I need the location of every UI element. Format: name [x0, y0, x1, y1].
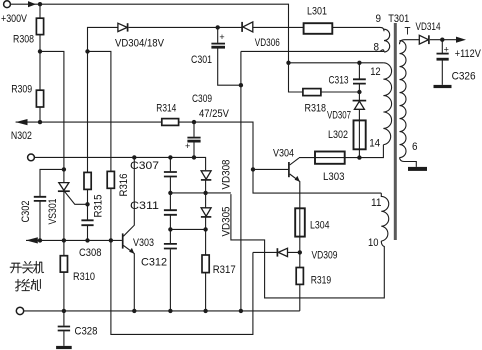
arrow N302 [16, 119, 28, 125]
wire VD309 to U-link [111, 240, 253, 334]
svg-text:R317: R317 [213, 264, 236, 276]
svg-text:VD304/18V: VD304/18V [115, 37, 165, 49]
svg-text:C313: C313 [329, 75, 349, 87]
svg-text:V303: V303 [133, 237, 154, 249]
resistor R316 [107, 171, 114, 188]
wire pin12 row [289, 62, 384, 64]
svg-text:C308: C308 [79, 247, 102, 259]
wire R316 link [88, 51, 111, 240]
node C301 bottom [239, 83, 243, 87]
svg-text:L303: L303 [323, 171, 345, 183]
diode VD314 [419, 35, 428, 44]
diode VD305 [205, 193, 207, 208]
wire row2 [170, 192, 231, 194]
wire R309 column [39, 51, 41, 122]
wire bottom rail [24, 310, 300, 312]
svg-text:VS301: VS301 [47, 199, 59, 225]
capacitor C301 [218, 27, 241, 85]
svg-text:T301: T301 [388, 13, 409, 25]
wire base column to pin11 [253, 169, 381, 193]
svg-text:V304: V304 [273, 148, 294, 160]
resistor R309 [36, 90, 43, 107]
svg-text:6: 6 [412, 141, 418, 153]
wire C302 link [40, 169, 64, 196]
node VD307 top [357, 90, 361, 94]
ground pin6 [408, 167, 427, 171]
svg-text:R310: R310 [73, 271, 95, 283]
svg-text:VD306: VD306 [255, 37, 280, 49]
transformer T301 primary 9-8 [380, 27, 384, 52]
svg-text:T: T [405, 26, 411, 38]
capacitor C302 [34, 197, 46, 201]
wire R318 row [321, 91, 360, 93]
svg-text:C301: C301 [191, 54, 212, 66]
svg-text:47/25V: 47/25V [199, 108, 230, 120]
node VD309 junction [298, 250, 302, 254]
node R309 bottom [38, 120, 42, 124]
svg-text:VD314: VD314 [416, 21, 441, 33]
node R308 top [38, 2, 42, 6]
capacitor C328 [63, 311, 65, 346]
svg-text:+: + [185, 141, 190, 151]
wire VD304 row [88, 27, 304, 51]
node C309 top [192, 120, 196, 124]
node V303 collector top [132, 155, 136, 159]
svg-text:C309: C309 [192, 93, 212, 105]
resistor R318 [303, 89, 321, 96]
wire VD306-anode column and pin8 wire [241, 51, 384, 311]
node R308/R309 junction [38, 49, 42, 53]
svg-text:R308: R308 [13, 34, 34, 46]
wire R315 column [87, 51, 89, 240]
wire V303 base rail [26, 239, 122, 241]
svg-text:+112V: +112V [455, 48, 482, 60]
node V304 base [251, 167, 255, 171]
label 控制 [15, 279, 40, 291]
svg-text:L302: L302 [328, 129, 348, 141]
transformer core [394, 23, 397, 240]
svg-text:10: 10 [368, 237, 379, 249]
diode VD304 [118, 23, 127, 31]
svg-text:N302: N302 [11, 130, 32, 142]
svg-text:VD308: VD308 [221, 160, 233, 190]
svg-text:9: 9 [376, 13, 382, 25]
ground C328 [56, 346, 72, 349]
svg-text:C312: C312 [141, 256, 167, 268]
svg-text:R318: R318 [305, 102, 327, 114]
diode VD306 [241, 22, 243, 32]
wire R308 column [39, 4, 41, 51]
svg-text:+: + [219, 32, 224, 42]
node C301 top [216, 25, 220, 29]
node R315 bottom [85, 202, 89, 206]
svg-text:R319: R319 [311, 274, 332, 286]
node L302 bottom [357, 155, 361, 159]
capacitor C307 [169, 157, 171, 193]
transformer secondary winding [400, 40, 405, 45]
inductor L301 [304, 23, 333, 34]
wire to zener column [40, 51, 64, 182]
svg-text:C302: C302 [20, 201, 32, 223]
resistor R317 [205, 229, 207, 311]
resistor R308 [36, 18, 43, 34]
arrow right on +300V rail [28, 1, 36, 7]
resistor R315 [84, 172, 91, 189]
capacitor C309 [187, 137, 200, 139]
svg-text:VD305: VD305 [221, 207, 233, 237]
svg-text:VD307: VD307 [327, 109, 351, 121]
capacitor C311 [169, 193, 171, 230]
svg-text:11: 11 [371, 197, 382, 209]
node C313 top [357, 61, 361, 65]
wire row3 [170, 228, 205, 230]
node C307 top [168, 155, 172, 159]
node pin12 junction [286, 61, 290, 65]
zener VS301 [59, 183, 69, 191]
capacitor C312 [169, 229, 171, 311]
wire C309 column [193, 122, 195, 157]
svg-text:C328: C328 [75, 326, 98, 338]
resistor R310 [63, 240, 65, 311]
svg-text:R314: R314 [156, 103, 176, 115]
svg-text:VD309: VD309 [312, 250, 338, 262]
inductor L303 [315, 152, 345, 164]
resistor R314 [162, 119, 179, 126]
svg-text:R316: R316 [118, 174, 130, 197]
svg-text:8: 8 [374, 42, 380, 54]
arrow +112V [456, 37, 466, 43]
node C309 bottom [192, 155, 196, 159]
transformer winding 11-10 [381, 193, 388, 241]
diode VD307 [358, 92, 360, 120]
transformer T301 winding 12-14 [383, 63, 391, 145]
terminal row1 circle [28, 154, 35, 161]
svg-text:14: 14 [369, 137, 380, 149]
svg-text:R309: R309 [11, 84, 32, 96]
svg-text:12: 12 [370, 66, 381, 78]
terminal bottom circle [16, 307, 23, 314]
resistor R319 [299, 252, 301, 311]
svg-text:+300V: +300V [1, 13, 28, 25]
arrow base rail [26, 237, 38, 243]
svg-text:L304: L304 [310, 220, 330, 232]
node R315 top-link [85, 49, 89, 53]
label 开关机 [10, 261, 43, 273]
diode VD308 [201, 171, 211, 179]
node C326 top [440, 38, 444, 42]
svg-text:R315: R315 [93, 195, 105, 218]
svg-text:L301: L301 [307, 5, 327, 17]
wire row1 [35, 157, 206, 170]
wire top rail [11, 4, 303, 92]
wire L303 row [299, 157, 359, 159]
inductor L304 [299, 208, 301, 252]
wire L301 to pin9 [332, 26, 380, 28]
inductor L302 [358, 120, 360, 157]
capacitor C326 [441, 40, 443, 85]
diode VD309 [253, 251, 300, 253]
terminal +300V [4, 1, 11, 8]
ground C326 [434, 85, 452, 88]
svg-text:C326: C326 [452, 70, 476, 82]
transistor V303 [122, 233, 124, 248]
node C302 link [62, 167, 66, 171]
transistor V304 [288, 162, 290, 177]
wire VD314 row [405, 39, 457, 41]
capacitor C308 [81, 220, 93, 225]
wire N302 row [16, 122, 253, 169]
svg-text:+: + [444, 44, 449, 54]
capacitor C313 [358, 63, 360, 92]
